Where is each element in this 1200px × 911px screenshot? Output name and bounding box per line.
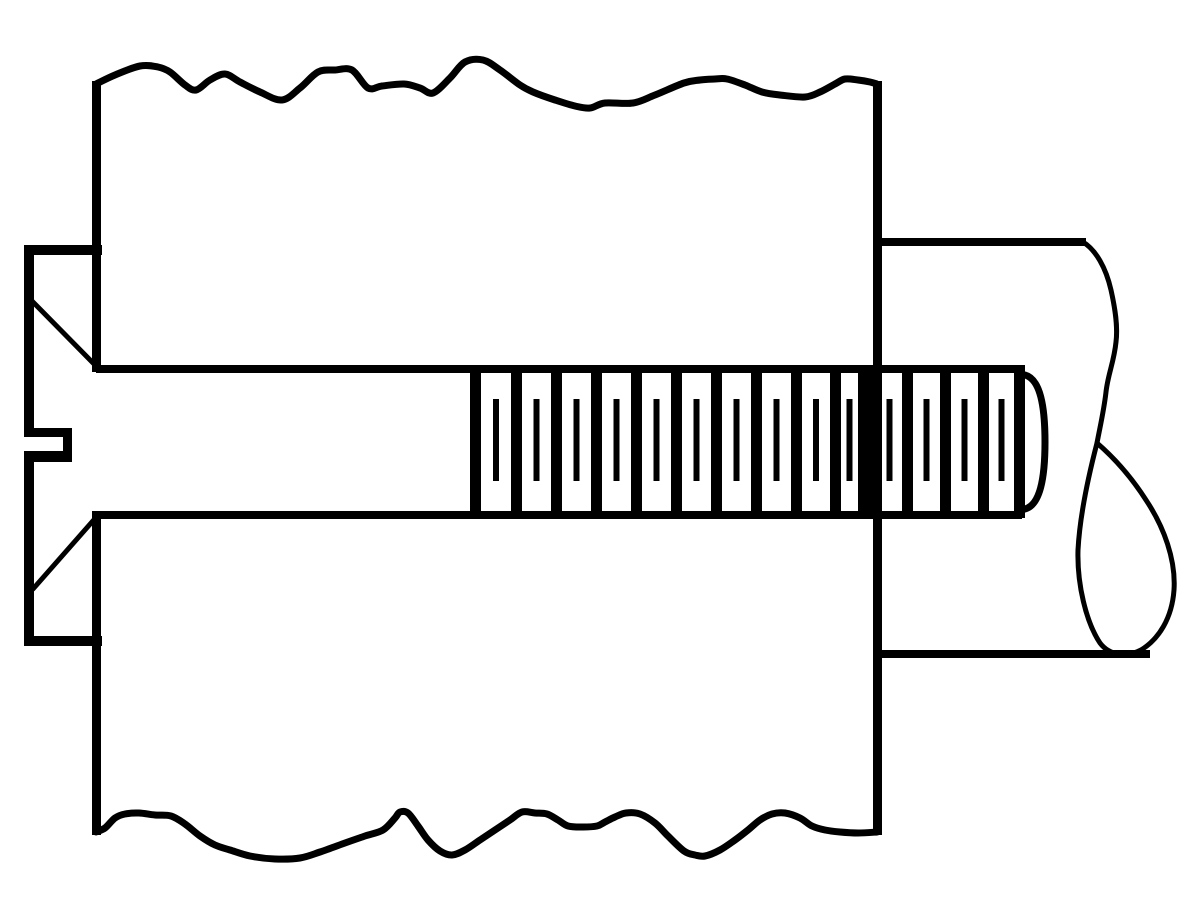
screw head left face lower segment: [24, 452, 34, 646]
slot top bar: [24, 428, 72, 437]
thread root bars: [470, 365, 481, 518]
slot right bar: [63, 428, 72, 462]
rod top line: [877, 238, 1086, 246]
shank top line: [96, 365, 1022, 373]
rod break teardrop loop: [1078, 443, 1174, 654]
rod break curve: [1083, 242, 1117, 443]
thread crest lines: [493, 399, 499, 481]
plate top break line: [96, 59, 877, 108]
screw head left face upper segment: [24, 245, 34, 437]
plate bottom break line: [96, 811, 877, 859]
plate left edge lower segment: [92, 511, 101, 835]
slot bottom bar: [24, 451, 72, 462]
shank bottom line: [96, 511, 1022, 519]
plate right edge: [873, 81, 882, 835]
countersink diagonal upper: [31, 300, 97, 367]
countersink diagonal lower: [33, 514, 99, 589]
rod bottom line: [877, 650, 1150, 658]
screw tip cap: [1025, 375, 1045, 509]
screw head bottom edge: [24, 636, 102, 646]
screw head top edge: [24, 245, 102, 255]
plate left edge upper segment: [92, 81, 101, 372]
